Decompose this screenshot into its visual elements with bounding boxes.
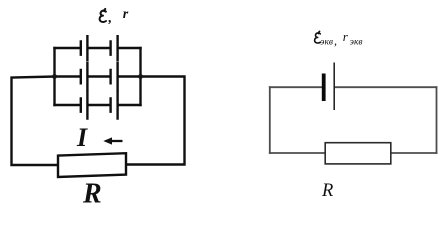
svg-text:I: I — [76, 123, 88, 152]
svg-text:R: R — [321, 181, 333, 201]
svg-text:r: r — [123, 7, 129, 22]
wire: middle branch left lead to outer left side down to resistor R — [12, 77, 58, 166]
battery GB positive plate — [333, 63, 335, 111]
wire: left bus bar of battery bank — [53, 48, 55, 105]
wire: top left segment to battery — [270, 86, 322, 88]
junction node A (left bus / outer wire) — [52, 74, 57, 79]
svg-text:R: R — [82, 179, 102, 210]
cell G1 (branch 1, left cell) — [81, 36, 88, 60]
cell G4 (branch 2, right cell) — [111, 63, 118, 90]
battery GB (equivalent source) negative plate — [322, 74, 326, 102]
svg-text:экв: экв — [320, 38, 333, 48]
svg-text:r: r — [343, 29, 349, 44]
resistor R (left circuit) — [58, 153, 126, 177]
current direction arrow — [103, 137, 122, 144]
label ℰ_экв (equivalent emf) — [315, 31, 321, 43]
cell G3 (branch 2, left cell) — [81, 63, 88, 90]
wire: right side — [436, 87, 438, 153]
cell G2 (branch 1, right cell) — [111, 36, 118, 60]
wire: left side — [269, 87, 271, 153]
wire: right bus bar of battery bank — [139, 48, 141, 105]
wire: top right segment from battery — [335, 86, 437, 88]
svg-text:,: , — [108, 11, 113, 26]
svg-text:экв: экв — [350, 38, 363, 48]
wire: middle branch right lead to outer right side down to resistor R — [127, 77, 185, 165]
label ℰ (emf of each cell) — [100, 9, 106, 22]
junction node B (right bus / outer wire) — [138, 74, 143, 79]
wire: branch 3 segments — [55, 104, 141, 106]
cell G5 (branch 3, left cell) — [81, 92, 88, 119]
svg-text:,: , — [334, 34, 337, 48]
wire: bottom right segment from resistor — [391, 152, 437, 154]
cell G6 (branch 3, right cell) — [111, 92, 118, 119]
wire: branch 2 segments — [55, 75, 141, 77]
wire: branch 1 segments — [55, 47, 141, 49]
wire: bottom left segment to resistor — [270, 152, 325, 154]
resistor R (right circuit) — [325, 143, 391, 164]
